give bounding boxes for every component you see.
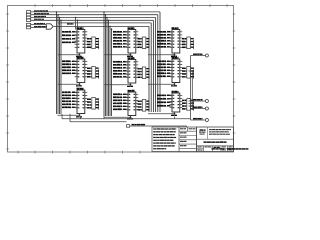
value label U5 type below [127,56,133,57]
value label U8 part number [172,27,179,29]
wire bottom ground bus [62,118,191,120]
net label and pin 4 of U7 [113,99,128,101]
IC U3 [75,59,88,83]
wire U8 enable return [148,53,175,56]
wire RN9 to bus [189,105,191,107]
net label and pin 6 of U4 [62,103,77,105]
net label and pin 2 of U4 [62,91,77,93]
net label and pin 7 of U7 [113,108,128,110]
net label and pin 2 of U8 [157,31,172,33]
wire U2 enable return [58,53,81,56]
connector TP1 [127,125,130,128]
connector J1 pin 6 [27,26,31,29]
wire RN9 to bus [189,100,191,102]
net label and pin 3 of U6 [113,64,128,66]
wire U4 enable return [58,114,81,117]
connector J1 pin 4 [27,19,31,22]
resistor network RN6 [138,100,150,112]
resistor network RN7 [182,37,194,49]
title block [197,127,234,152]
net label and pin 2 of U6 [113,61,128,63]
net label and pin 6 of U3 [62,72,77,74]
net label and pin 7 of U8 [157,46,172,48]
net label U1 output [67,23,74,24]
wire bus line 4 [31,20,153,112]
net label output OUT3 [193,106,203,107]
net label and pin 5 of U7 [113,102,128,104]
value label U3 part number [77,57,84,59]
net label and pin 6 of U8 [157,43,172,45]
value label U7 type below [127,118,133,119]
net label and pin 5 of U6 [113,70,128,72]
resistor network RN2 [87,67,99,79]
wire bus drop column 2 line 1 [103,11,105,116]
wire to connector J2 pin 2 [191,100,206,102]
net label and pin 5 of U3 [62,69,77,71]
wire J1 pin 5 to U1 [31,24,46,26]
net label input 2 [34,13,49,14]
net label and pin 4 of U5 [113,37,128,39]
value label U4 type below [76,116,82,117]
connector J2 pin 3 [205,107,208,110]
net label and pin 6 of U7 [113,105,128,107]
wire bus drop column 2 line 4 [108,20,110,117]
resistor network RN4 [138,37,150,49]
net label and pin 2 of U3 [62,60,77,62]
net label and pin 6 of U5 [113,43,128,45]
wire bus drop column 1 line 1 [56,11,58,114]
resistor network RN8 [182,67,194,79]
connector J1 pin 3 [27,16,31,19]
net label output J2 pin 4 [193,118,203,119]
connector J1 pin 2 [27,13,31,16]
wire bus drop column 1 line 4 [60,20,62,115]
value label U9 part number [172,57,179,59]
wire U3 enable return [58,83,81,86]
wire U7 enable return [105,116,132,119]
value label U7 part number [128,90,135,92]
wire to connector J2 pin 1 [191,55,206,57]
connector J2 pin 1 [205,54,208,57]
net label and pin 3 of U3 [62,63,77,65]
connector J2 pin 2 [205,100,208,103]
wire RN9 to bus [189,103,191,105]
resistor network RN1 [87,37,99,49]
value label U6 part number [128,57,135,59]
net label and pin 5 of U2 [62,42,77,44]
wire bus drop column 1 line 2 [57,14,59,114]
wire riser column2 [103,116,105,119]
connector J1 pin 5 [27,23,31,26]
net label and pin 3 of U7 [113,96,128,98]
IC U6 [126,60,139,84]
net label TP1 [132,124,146,125]
value label U5 part number [128,27,135,29]
net label and pin 4 of U10 [157,101,172,103]
net label input 6 [34,26,47,27]
net label and pin 7 of U9 [157,75,172,77]
wire feed U2 pin 20 [77,20,79,30]
value label U9 type below [171,85,177,86]
resistor network RN3 [87,98,99,110]
wire U1 output bus [54,26,149,112]
wire bus drop column 2 line 6 [111,28,113,116]
value label U10 part number [172,91,179,93]
net label and pin 3 of U8 [157,34,172,36]
wire U10 enable return [148,112,175,115]
net label and pin 5 of U5 [113,40,128,42]
wire RN8 to bus [189,70,194,72]
net label and pin 2 of U2 [62,31,77,33]
wire U5 enable return [105,53,132,56]
net label and pin 2 of U5 [113,31,128,33]
wire J1 pin 6 to U1 [31,27,46,29]
notes table [152,127,197,152]
net label and pin 6 of U9 [157,72,172,74]
wire bus drop column 2 line 3 [106,17,108,116]
wire U6 enable return [105,83,132,86]
wire to connector J2 pin 4 [191,119,206,120]
connector J1 pin 1 [27,11,31,14]
net label and pin 7 of U5 [113,46,128,48]
IC U9 [170,59,183,83]
buffer U1 [46,24,53,29]
wire U9 enable return [148,83,175,86]
wire to connector J2 pin 3 [191,108,206,110]
net label input 1 [34,10,48,11]
value label scan annotation bottom right [212,148,249,150]
net label and pin 4 of U2 [62,38,77,40]
wire feed U2 pin 1 [75,17,77,30]
IC U8 [170,30,183,54]
net label and pin 4 of U3 [62,66,77,68]
value label U10 type below [171,115,177,116]
net label and pin 6 of U6 [113,73,128,75]
net label input 4 [34,19,44,20]
IC U2 [75,30,88,54]
net label and pin 7 of U6 [113,76,128,78]
wire bus drop column 1 line 3 [59,17,61,114]
wire bus line 1 [31,12,160,112]
wire riser column1 [61,114,63,119]
wire bus drop column 2 line 5 [109,26,111,116]
net label output OUT1 [193,53,203,54]
resistor network RN9 [182,99,194,111]
net label and pin 2 of U7 [113,93,128,95]
wire bus line 5 [58,23,151,112]
net label and pin 4 of U4 [62,97,77,99]
net label and pin 5 of U10 [157,105,172,107]
net label and pin 3 of U9 [157,63,172,65]
IC U7 [126,92,139,116]
IC U4 [75,90,88,114]
value label U4 part number [77,88,84,90]
value label U8 type below [171,56,177,57]
wire output vertical bus [190,56,192,119]
net label and pin 2 of U9 [157,60,172,62]
net label and pin 3 of U10 [157,98,172,100]
wire bus line 3 [31,18,156,113]
net label and pin 3 of U5 [113,34,128,36]
net label input 3 [34,16,46,17]
wire RN9 to bus [189,98,191,100]
value label U6 type below [127,86,133,87]
net label and pin 3 of U4 [62,94,77,96]
wire output vertical bus 2 [191,70,193,110]
net label and pin 4 of U8 [157,37,172,39]
value label U2 part number [77,27,84,29]
value label U2 type below [76,56,82,57]
net label and pin 4 of U9 [157,66,172,68]
net label and pin 5 of U9 [157,69,172,71]
net label and pin 2 of U10 [157,95,172,97]
net label input 5 [34,23,45,24]
wire stub to TP1 [70,114,127,122]
wire TP1 to title area [130,126,187,127]
resistor network RN5 [138,67,150,79]
net label output OUT2 [193,99,203,100]
net label and pin 7 of U4 [62,106,77,108]
net label and pin 5 of U8 [157,40,172,42]
IC U10 [170,93,183,112]
net label and pin 5 of U4 [62,100,77,102]
wire riser U4 [80,117,82,119]
value label U3 type below [76,85,82,86]
wire bus drop column 2 line 2 [105,14,107,116]
wire riser U7 [130,117,132,119]
IC U5 [126,30,139,54]
net label and pin 4 of U6 [113,67,128,69]
wire riser U10 [174,117,176,119]
wire bus line 2 [31,15,158,112]
connector J2 pin 4 [205,119,208,122]
net label and pin 3 of U2 [62,34,77,36]
